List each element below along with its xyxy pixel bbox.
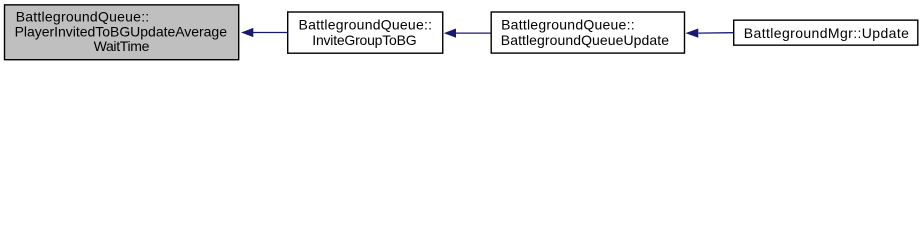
svg-text:BattlegroundQueue::: BattlegroundQueue:: (299, 17, 433, 33)
svg-text:PlayerInvitedToBGUpdateAverage: PlayerInvitedToBGUpdateAverage (15, 23, 228, 39)
svg-text:BattlegroundQueue::: BattlegroundQueue:: (16, 8, 150, 24)
svg-text:WaitTime: WaitTime (94, 38, 150, 54)
svg-text:BattlegroundQueueUpdate: BattlegroundQueueUpdate (501, 32, 669, 48)
svg-text:BattlegroundQueue::: BattlegroundQueue:: (501, 17, 634, 33)
svg-text:InviteGroupToBG: InviteGroupToBG (312, 32, 416, 48)
svg-text:BattlegroundMgr::Update: BattlegroundMgr::Update (744, 25, 909, 41)
